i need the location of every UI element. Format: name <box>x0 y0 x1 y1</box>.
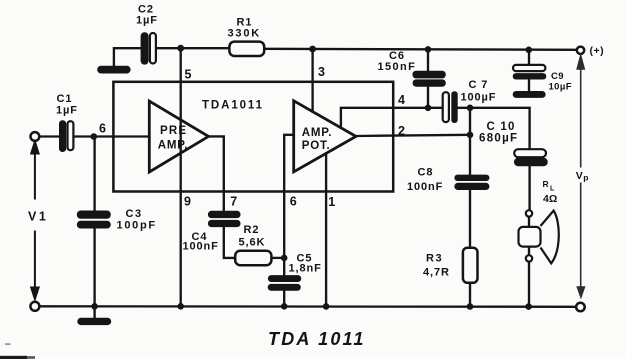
svg-text:C8: C8 <box>418 167 434 179</box>
svg-text:4: 4 <box>398 93 405 107</box>
svg-text:7: 7 <box>230 195 237 209</box>
svg-text:C1: C1 <box>57 93 73 105</box>
svg-text:1µF: 1µF <box>136 15 158 27</box>
svg-text:5,6K: 5,6K <box>239 237 266 249</box>
svg-text:100nF: 100nF <box>183 240 219 252</box>
svg-text:10µF: 10µF <box>549 82 572 93</box>
svg-text:C 10: C 10 <box>487 121 516 133</box>
svg-text:V: V <box>576 170 583 182</box>
svg-text:p: p <box>583 173 588 183</box>
svg-text:L: L <box>550 186 555 193</box>
svg-text:330K: 330K <box>228 28 262 40</box>
svg-text:AMP.: AMP. <box>302 127 332 139</box>
svg-text:4Ω: 4Ω <box>543 193 557 205</box>
svg-text:C9: C9 <box>551 71 564 82</box>
svg-text:6: 6 <box>99 122 106 136</box>
svg-text:TDA1011: TDA1011 <box>202 100 264 112</box>
svg-text:C3: C3 <box>126 208 143 220</box>
svg-text:4,7R: 4,7R <box>423 267 450 279</box>
svg-text:150nF: 150nF <box>378 61 417 73</box>
svg-text:R2: R2 <box>244 224 260 236</box>
svg-text:R3: R3 <box>426 253 443 265</box>
svg-text:100µF: 100µF <box>461 92 497 104</box>
svg-text:5: 5 <box>185 68 192 82</box>
svg-text:POT.: POT. <box>302 140 331 152</box>
svg-text:R: R <box>543 179 549 189</box>
svg-text:2: 2 <box>398 124 405 138</box>
svg-text:AMP.: AMP. <box>158 139 188 151</box>
svg-text:100pF: 100pF <box>117 220 157 232</box>
svg-text:1,8nF: 1,8nF <box>289 263 322 275</box>
svg-text:6: 6 <box>290 195 297 209</box>
svg-text:1: 1 <box>328 195 335 209</box>
svg-text:680µF: 680µF <box>479 133 518 145</box>
svg-text:3: 3 <box>318 65 325 79</box>
svg-text:V1: V1 <box>28 209 49 223</box>
svg-text:C 7: C 7 <box>469 79 489 91</box>
svg-text:9: 9 <box>184 195 191 209</box>
svg-text:(+): (+) <box>590 45 605 57</box>
svg-text:PRE: PRE <box>160 125 187 137</box>
svg-text:100nF: 100nF <box>407 181 443 193</box>
svg-text:TDA 1011: TDA 1011 <box>268 329 366 349</box>
svg-text:1µF: 1µF <box>56 105 78 117</box>
